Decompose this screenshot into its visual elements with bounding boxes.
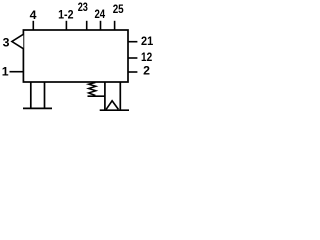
pin 2 stub (128, 71, 137, 73)
right mounting leg A (104, 82, 106, 110)
wedge triangle on right base (106, 101, 118, 110)
pin 24 stub (100, 21, 102, 30)
svg-text:1-2: 1-2 (58, 8, 74, 22)
svg-text:21: 21 (141, 34, 153, 48)
right base bar (100, 109, 129, 111)
svg-text:4: 4 (30, 8, 37, 22)
svg-text:24: 24 (94, 7, 105, 21)
svg-text:3: 3 (3, 36, 10, 50)
pin 12 stub (128, 57, 137, 59)
pin 4 stub (32, 21, 34, 30)
component body U1 (23, 30, 128, 82)
spring / resistor zigzag (89, 83, 96, 96)
pin 23 stub (86, 21, 88, 30)
pin 1-2 stub (65, 21, 67, 30)
svg-text:12: 12 (141, 50, 152, 64)
pin 25 stub (114, 21, 116, 30)
pin 3 triangle marker (12, 34, 23, 48)
left base bar (23, 107, 52, 109)
svg-text:2: 2 (143, 64, 150, 78)
pin 1 stub (10, 71, 24, 73)
svg-text:1: 1 (2, 65, 9, 79)
left mounting leg B (44, 82, 46, 109)
zigzag bottom wire (88, 95, 106, 97)
pin 21 stub (128, 41, 137, 43)
right mounting leg B (119, 82, 121, 110)
svg-text:23: 23 (78, 0, 88, 14)
svg-text:25: 25 (113, 2, 124, 16)
left mounting leg A (30, 82, 32, 109)
